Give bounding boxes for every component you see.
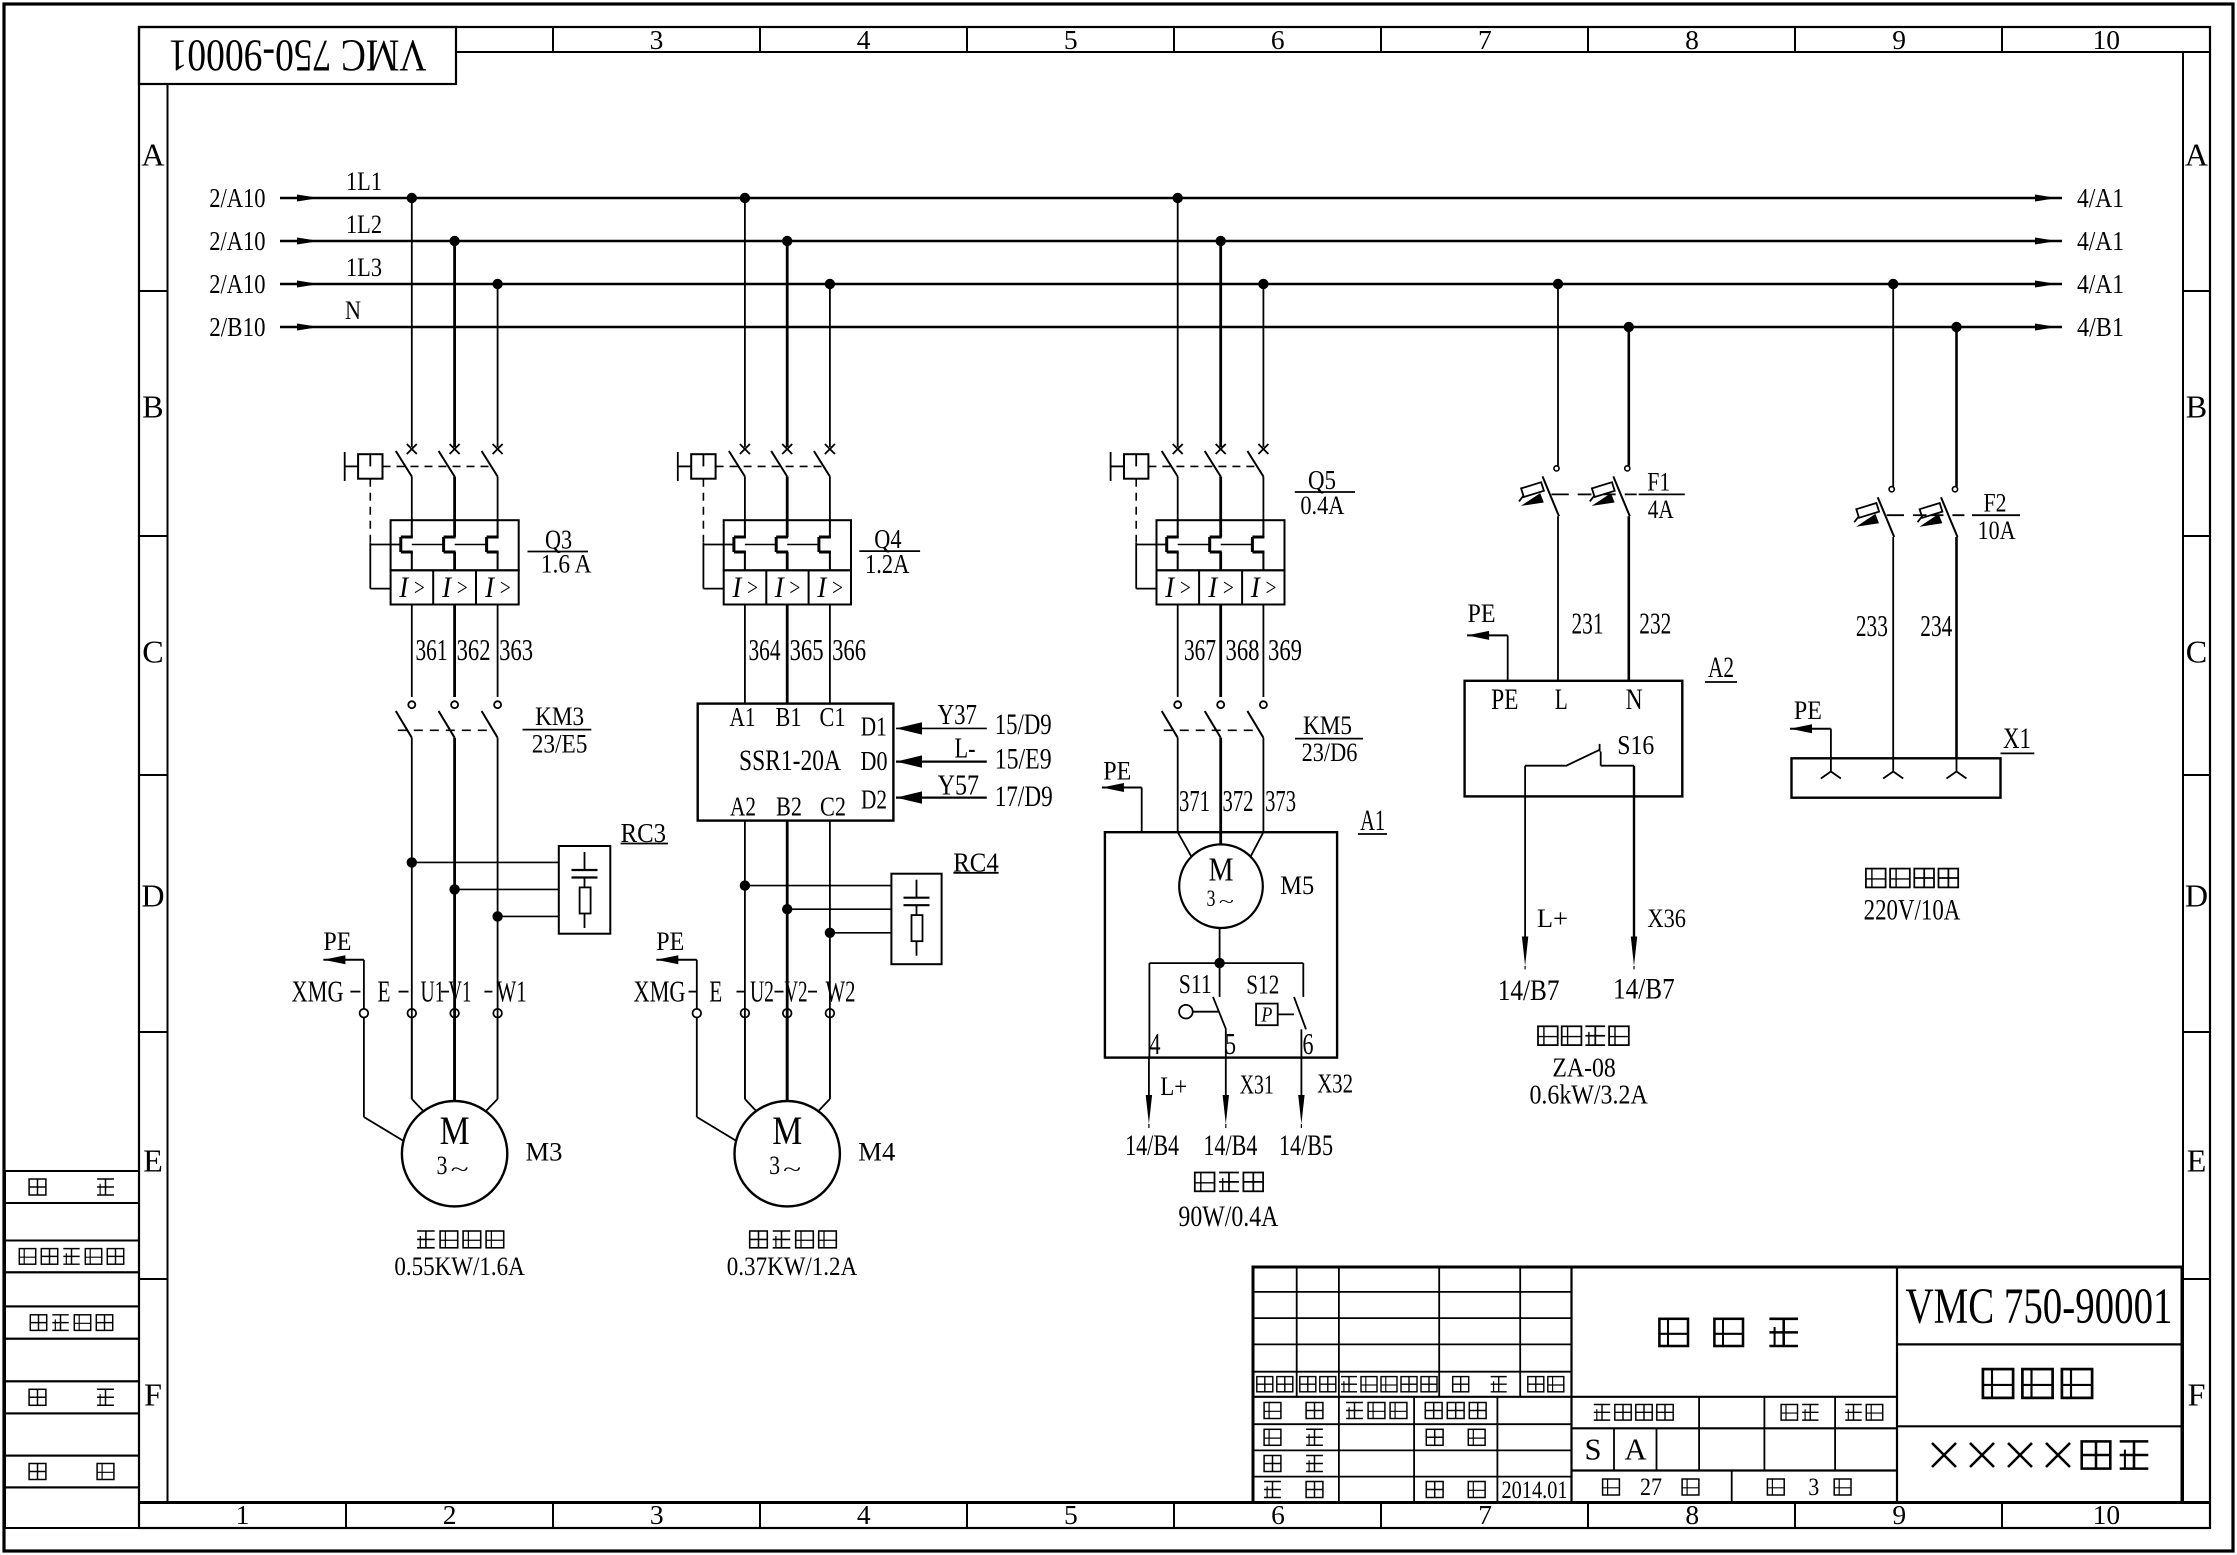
breaker thermal unit box [724,520,851,570]
F1 pole L flag tail [1519,496,1524,502]
left margin box 旧底图总号 [5,1241,139,1273]
contactor pole 2 blade [1205,711,1221,738]
terminal XMG:V1 [450,1009,459,1018]
svg-text:4: 4 [857,24,871,55]
unit name 电柜空调 [1538,1026,1558,1045]
svg-text:3: 3 [769,1150,780,1180]
branch2 PE drop wire [696,960,698,1009]
F1 pole L release arrow [1521,493,1544,506]
dash E-U1 [399,991,409,993]
air conditioner unit A2 box [1465,681,1683,797]
svg-text:5: 5 [1064,24,1078,55]
branch3 wires below KM5 [1177,738,1179,833]
svg-text:B: B [2186,389,2207,425]
svg-text:F2: F2 [1984,487,2007,517]
svg-text:D2: D2 [861,784,887,815]
magnetic trip I> row box [1157,570,1285,604]
breaker pole 1 lower stub [1177,477,1179,521]
X1 socket contact L [1892,758,1894,771]
bus N right arrow [2035,324,2057,331]
svg-text:E: E [709,975,722,1009]
svg-text:0.4A: 0.4A [1300,490,1345,520]
svg-text:364: 364 [749,633,781,667]
wire 366 [829,605,831,704]
F2 pole N terminal circle [1952,487,1957,492]
node RC4 tap 1 [740,880,750,890]
bus 1L2 right arrow [2035,238,2057,245]
bus 1L2 left arrow [297,238,319,245]
S12 pressure box [1256,1004,1278,1026]
breaker pole 3 lower stub [829,477,831,521]
wire 233 [1892,537,1894,758]
svg-text:366: 366 [832,633,866,667]
revision header row bottom line [1253,1396,1572,1398]
svg-text:5: 5 [1225,1027,1236,1061]
cell 比例 [1845,1404,1861,1406]
contactor pole 1 fixed contact circle [408,701,415,708]
revision table vertical line [1338,1267,1340,1397]
breaker handle linkage dashed vertical [369,479,371,543]
svg-text:XMG: XMG [292,975,344,1009]
svg-text:VMC 750-90001: VMC 750-90001 [1906,1278,2173,1334]
contactor pole 2 fixed contact circle [1217,701,1224,708]
svg-text:PE: PE [323,927,351,956]
svg-text:M4: M4 [858,1138,895,1167]
svg-text:S12: S12 [1246,969,1279,1000]
breaker pole 3 lower stub [1262,477,1264,521]
breaker linkage dashed line [716,465,825,467]
svg-text:14/B5: 14/B5 [1279,1129,1333,1162]
branch5 wire N drop (thick) [1955,327,1958,487]
wire RC4 tap3 [830,932,892,934]
svg-text:D0: D0 [861,745,888,776]
svg-text:N: N [1626,684,1643,716]
bottom ruler divider [759,1503,761,1529]
svg-text:V1: V1 [448,975,471,1009]
socket strip X1 box [1792,758,2001,797]
svg-text:14/B7: 14/B7 [1613,974,1675,1006]
top ruler strip line [456,51,2210,53]
contactor linkage dashed line [398,729,488,731]
branch2 PE arrow [656,959,697,961]
bus junction [1951,322,1961,332]
terminal XMG:U2 [741,1009,750,1018]
left strip row divider [139,290,168,292]
RC4 resistor [912,915,923,941]
svg-text:>: > [413,575,426,602]
branch3 wire 1L3 drop [1262,284,1264,447]
revision header 日期 [1528,1377,1544,1392]
svg-text:F: F [144,1377,162,1413]
bus N left arrow [297,324,319,331]
svg-text:D: D [141,878,164,914]
branch5 wire 1L3 drop [1892,284,1894,487]
breaker pole 2 cross mark [1216,444,1226,454]
node RC4 tap 3 [825,928,835,938]
svg-text:I: I [1250,572,1261,604]
svg-text:M5: M5 [1280,871,1314,900]
bus junction [492,279,502,289]
RC4 capacitor [916,880,918,898]
thermal element meander pole 3 [829,520,831,537]
svg-text:P: P [1261,1002,1273,1026]
F2 linkage tick N [1931,514,1966,516]
svg-text:372: 372 [1223,784,1254,818]
row 校对 [1264,1429,1281,1445]
S12 upper wire [1302,963,1304,997]
top ruler divider [1587,27,1589,52]
row 工艺 [1264,1481,1281,1483]
svg-text:6: 6 [1271,24,1285,55]
svg-text:Y37: Y37 [938,700,977,731]
wire 369 [1262,605,1264,698]
X1 socket contact N [1956,758,1958,771]
thermal element meander pole 3 [497,520,499,537]
unit name 电源插座 [1866,869,1886,888]
breaker pole 3 cross mark [1258,444,1268,454]
svg-text:4: 4 [1150,1027,1161,1061]
svg-text:VMC 750-90001: VMC 750-90001 [169,31,427,82]
SSR D2 control wire Y57 [896,796,987,798]
dash U1-V1 [441,991,449,993]
svg-text:17/D9: 17/D9 [995,781,1053,813]
signature table vertical line [1338,1397,1340,1503]
thermal element meander pole 1 [1177,520,1179,537]
svg-text:A2: A2 [730,791,756,822]
signature rows horizontal line [1253,1449,1572,1451]
solid state relay SSR1-20A box [698,704,894,821]
bus 1L1 left arrow [297,195,319,202]
svg-text:5: 5 [1064,1499,1078,1530]
bottom ruler divider [966,1503,968,1529]
top ruler divider [966,27,968,52]
svg-text:~: ~ [1219,892,1234,912]
svg-text:X1: X1 [2003,723,2031,755]
breaker operating handle box [358,454,382,479]
dash XMG-E (2) [689,991,698,993]
svg-text:S11: S11 [1179,968,1212,999]
breaker pole 3 blade [1247,451,1263,477]
svg-text:>: > [1222,575,1235,602]
top ruler divider [1173,27,1175,52]
revision header 更改文件号 [1341,1376,1357,1378]
svg-text:X32: X32 [1317,1067,1353,1098]
branch3 PE drop wire [1141,788,1143,833]
unit name 润滑站 [1195,1173,1215,1192]
svg-text:~: ~ [783,1157,801,1181]
F2 pole N release flag [1920,503,1943,518]
breaker pole 2 lower stub [1219,477,1222,521]
svg-text:23/D6: 23/D6 [1302,737,1358,767]
svg-text:PE: PE [1491,684,1518,716]
svg-text:E: E [378,975,391,1009]
breaker pole 3 cross mark [493,444,503,454]
breaker handle left stub [1111,465,1124,467]
svg-text:>: > [831,575,844,602]
svg-text:368: 368 [1226,633,1260,667]
svg-text:1.6 A: 1.6 A [541,549,592,578]
svg-text:F1: F1 [1647,466,1670,496]
left margin box (blank) [5,1203,139,1241]
branch2 wire 1L2 drop (thick) [786,241,789,447]
branch1 wire 1L2 drop (thick) [453,241,456,447]
svg-text:W1: W1 [497,975,527,1009]
svg-text:M: M [440,1109,470,1153]
breaker pole 2 cross mark [450,444,460,454]
breaker handle linkage dashed vertical [702,479,704,543]
thermal trip bar segments [745,544,776,546]
bus junction [407,193,417,203]
right strip row divider [2183,774,2210,776]
wire 365 (thick) [786,605,789,704]
svg-text:90W/0.4A: 90W/0.4A [1178,1201,1278,1233]
svg-text:S16: S16 [1617,729,1654,760]
svg-text:N: N [345,295,361,325]
A2 L+ drop wire [1524,766,1526,937]
contactor pole 2 blade [439,711,455,738]
F1 pole L terminal circle [1554,466,1559,471]
contactor linkage dashed line [1164,729,1254,731]
branch1 PE arrow [323,959,364,961]
dash XMG-E [350,991,360,993]
svg-text:~: ~ [451,1157,469,1181]
svg-text:362: 362 [457,633,491,667]
breaker handle left stub [345,465,358,467]
F1 linkage tick L [1552,493,1569,495]
svg-text:3: 3 [650,1499,664,1530]
revision table horizontal line [1253,1371,1572,1373]
svg-text:PE: PE [1103,756,1131,785]
row 日期 (bottom) [1426,1482,1443,1498]
dash V1-W1 [484,991,492,993]
breaker trip linkage horizontals [703,544,734,546]
motor M5 wires [1178,832,1192,856]
F2 pole L flag tail [1854,517,1859,523]
svg-text:7: 7 [1478,24,1492,55]
svg-text:X31: X31 [1240,1069,1274,1100]
thermal trip bar segments [412,544,444,546]
F2 pole L blade [1878,497,1895,537]
left margin box (blank) [5,1413,139,1455]
svg-text:10: 10 [2092,24,2120,55]
svg-text:3: 3 [1808,1474,1819,1501]
svg-text:4/A1: 4/A1 [2077,182,2124,213]
bus 1L1 right arrow [2035,195,2057,202]
A2 X36 drop wire (thick) [1633,766,1635,937]
top ruler divider [759,27,761,52]
S11 lower wire (pin5) [1225,1029,1227,1057]
breaker handle left stub [678,465,691,467]
KM5 label fraction line [1295,738,1363,740]
svg-text:220V/10A: 220V/10A [1864,894,1961,926]
svg-text:U2: U2 [750,975,774,1009]
图样标记 row vertical [1698,1397,1700,1471]
svg-text:4/A1: 4/A1 [2077,268,2124,299]
bus line 1L1 [280,197,2062,200]
svg-text:2014.01: 2014.01 [1502,1477,1568,1504]
branch3 PE arrow [1102,787,1142,789]
X36 output arrow [1631,937,1637,967]
bus junction [1888,279,1898,289]
svg-text:2/A10: 2/A10 [209,225,265,256]
svg-text:Y57: Y57 [938,770,979,801]
svg-text:E: E [143,1143,163,1179]
breaker pole 3 cross mark [825,444,835,454]
svg-text:4/B1: 4/B1 [2077,311,2124,342]
svg-text:F: F [2188,1377,2206,1413]
title block vertical: right section boundary [1896,1267,1898,1503]
I> cell dividers [1198,570,1200,604]
terminal XMG:E (2) [693,1009,702,1018]
svg-text:231: 231 [1572,607,1604,641]
RC3 capacitor [584,852,586,870]
svg-text:>: > [499,575,512,602]
node RC3 tap 3 [492,911,502,921]
svg-text:1: 1 [236,1499,250,1530]
F2 pole L release flag [1856,503,1879,518]
M5 bottom wire [1219,928,1221,963]
top ruler divider [1380,27,1382,52]
svg-text:L: L [1555,684,1568,716]
title block vertical: middle section boundary [1570,1267,1572,1503]
svg-text:I: I [441,572,452,604]
svg-text:D: D [2185,878,2208,914]
svg-text:9: 9 [1892,24,1906,55]
contactor pole 1 fixed contact circle [1174,701,1181,708]
svg-text:L+: L+ [1160,1071,1187,1101]
svg-text:234: 234 [1920,609,1952,643]
row 设计 [1264,1403,1281,1419]
contactor pole 3 fixed contact circle [1260,701,1267,708]
svg-text:3: 3 [650,24,664,55]
svg-text:1L3: 1L3 [346,252,382,282]
S16 right wire [1601,765,1634,767]
output X32 wire and arrow [1300,1058,1302,1096]
branch4 PE drop wire [1507,635,1509,680]
svg-text:ZA-08: ZA-08 [1552,1053,1615,1083]
branch4 wire N drop (thick) [1628,327,1631,466]
drawing name 主回路 [1983,1369,2013,1398]
svg-text:3: 3 [437,1150,448,1180]
F1 linkage tick N [1604,493,1639,495]
breaker operating handle box [691,454,715,479]
svg-text:367: 367 [1184,633,1216,667]
revision table vertical line [1519,1267,1521,1397]
breaker thermal unit box [1157,520,1285,570]
svg-text:V2: V2 [785,975,808,1009]
breaker pole 1 lower stub [411,477,413,521]
cell 图样标记 [1594,1404,1610,1406]
svg-text:A: A [2185,137,2208,173]
svg-text:A1: A1 [730,701,756,732]
breaker linkage dashed line [383,465,493,467]
signature rows horizontal line [1253,1476,1572,1478]
bus junction [1173,193,1183,203]
breaker pole 2 lower stub [786,477,789,521]
svg-text:M3: M3 [526,1138,563,1167]
rail left drop (pin4) [1148,963,1150,1058]
thermal element meander pole 1 [744,520,746,537]
left strip row divider [139,1031,168,1033]
revision table vertical line [1296,1267,1298,1397]
breaker operating handle box [1124,454,1148,479]
breaker pole 3 blade [814,451,830,477]
right strip row divider [2183,1278,2210,1280]
Q4 label fraction line [859,550,920,552]
svg-text:C: C [142,634,163,670]
terminal XMG:V2 [783,1009,792,1018]
breaker pole 1 blade [396,451,412,477]
A1 internal rail [1149,962,1303,964]
svg-text:I: I [731,572,742,604]
wire 367 [1177,605,1179,698]
S12 blade [1294,997,1306,1029]
motor name 选刀电机 [750,1231,768,1248]
thermal trip bar segments [1178,544,1210,546]
bus junction [1553,279,1563,289]
svg-text:15/D9: 15/D9 [995,709,1052,741]
right section divider lines [1897,1343,2182,1345]
breaker pole 2 blade [771,451,787,477]
bus 1L3 right arrow [2035,281,2057,288]
svg-text:A: A [141,137,164,173]
svg-text:M: M [772,1109,802,1153]
designer name 龚仲华 [1346,1402,1363,1404]
branch1 wire 1L3 drop [497,284,499,447]
revision header 签字 [1453,1377,1469,1392]
output X31 wire and arrow [1225,1058,1227,1096]
svg-text:2: 2 [443,1499,457,1530]
signature table vertical line [1496,1397,1498,1503]
row 审核 [1264,1456,1281,1472]
svg-text:2/A10: 2/A10 [209,268,265,299]
svg-text:8: 8 [1685,24,1699,55]
divider 共页|第页 [1731,1471,1733,1503]
top ruler divider [1794,27,1796,52]
F2 pole N flag tail [1918,517,1923,523]
svg-text:A: A [1624,1433,1646,1467]
svg-text:371: 371 [1179,784,1210,818]
motor M3 circle [402,1101,507,1206]
S11 upper wire [1219,963,1221,997]
revision table horizontal line [1253,1291,1572,1293]
breaker pole 3 blade [482,451,498,477]
svg-text:W2: W2 [826,975,856,1009]
bottom ruler bottom line [139,1527,2210,1529]
svg-text:PE: PE [1794,696,1822,725]
bus 1L3 left arrow [297,281,319,288]
title block outer border [1253,1267,2182,1503]
F2 pole N release arrow [1919,514,1942,527]
left strip row divider [139,774,168,776]
svg-text:C1: C1 [820,701,846,732]
svg-text:14/B4: 14/B4 [1125,1129,1179,1162]
svg-text:1L2: 1L2 [346,209,382,239]
bus junction [782,236,792,246]
breaker handle linkage dashed vertical [1135,479,1137,543]
S12 lower wire (pin6) [1300,1029,1302,1057]
SSR D0 control wire L- [896,760,987,762]
svg-text:PE: PE [656,927,684,956]
output L+ wire and arrow [1148,1058,1150,1096]
breaker trip linkage horizontals [370,544,401,546]
bus junction [740,193,750,203]
svg-text:6: 6 [1303,1027,1314,1061]
terminal XMG:E [360,1009,369,1018]
breaker linkage dashed line [1148,465,1258,467]
breaker pole 2 lower stub [453,477,456,521]
left strip row divider [139,535,168,537]
